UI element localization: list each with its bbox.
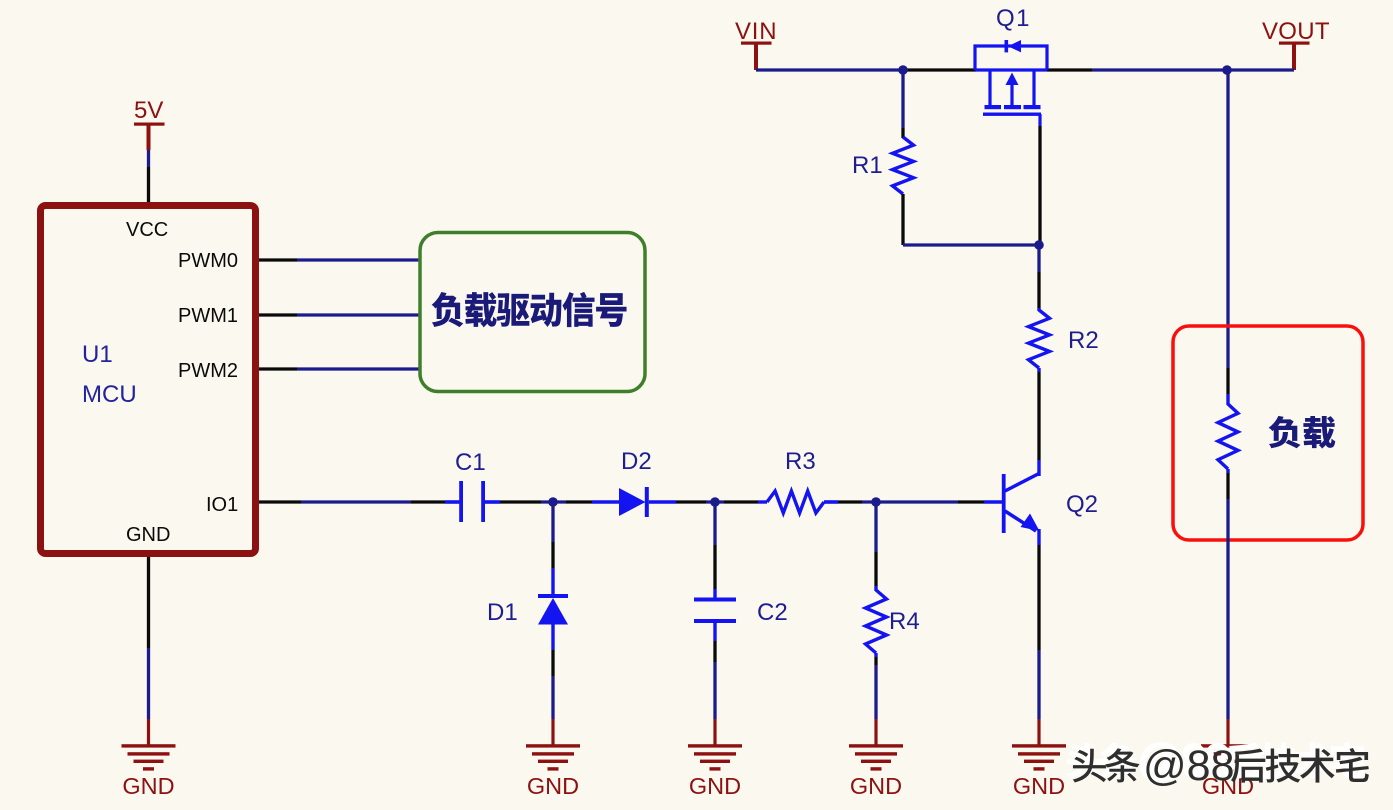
svg-text:R2: R2 bbox=[1068, 327, 1099, 354]
svg-text:Q1: Q1 bbox=[996, 5, 1031, 32]
ground D1 bbox=[526, 719, 580, 799]
svg-text:GND: GND bbox=[1013, 773, 1065, 799]
wire load to ground bbox=[1226, 469, 1229, 719]
power port VIN bbox=[735, 18, 777, 70]
resistor R4 bbox=[866, 590, 887, 653]
wire C1 to D2 bbox=[485, 500, 620, 504]
text 负载 bbox=[1269, 416, 1336, 449]
svg-text:R1: R1 bbox=[852, 152, 883, 179]
resistor R1 bbox=[893, 137, 914, 194]
junction R3/R4 bbox=[871, 497, 881, 507]
svg-text:PWM0: PWM0 bbox=[178, 250, 238, 272]
svg-text:PWM2: PWM2 bbox=[178, 360, 238, 382]
svg-text:VOUT: VOUT bbox=[1262, 18, 1330, 45]
transistor Q2 (NPN) bbox=[1002, 474, 1040, 534]
wire PWM pin y=260 bbox=[259, 258, 419, 261]
power port 5V bbox=[134, 97, 165, 150]
wire node to C2 bbox=[713, 506, 716, 598]
svg-text:5V: 5V bbox=[134, 97, 163, 124]
svg-text:IO1: IO1 bbox=[206, 494, 238, 516]
svg-text:C1: C1 bbox=[455, 449, 486, 476]
svg-text:U1: U1 bbox=[82, 341, 113, 368]
diode D2 bbox=[619, 487, 649, 517]
junction VIN/R1 bbox=[898, 65, 908, 75]
ground U1 bbox=[122, 719, 176, 799]
load resistor symbol bbox=[1218, 404, 1238, 469]
annotation box: load drive signal bbox=[420, 233, 645, 392]
svg-text:R3: R3 bbox=[785, 448, 816, 475]
wire R4 to ground bbox=[874, 653, 877, 719]
wire 5V to VCC pin bbox=[147, 150, 150, 204]
watermark 头条 @88后技术宅 bbox=[1068, 737, 1369, 791]
svg-text:GND: GND bbox=[689, 773, 741, 799]
wire PWM pin y=369 bbox=[259, 367, 419, 370]
wire MCU GND pin to ground bbox=[147, 557, 150, 719]
junction gate/R1/R2 bbox=[1034, 240, 1044, 250]
capacitor C1 bbox=[459, 481, 485, 522]
svg-text:R4: R4 bbox=[889, 608, 920, 635]
wire VIN rail bbox=[756, 68, 976, 71]
ground load bbox=[1201, 719, 1255, 799]
wire D1 to ground bbox=[551, 624, 554, 719]
text 负载驱动信号 bbox=[432, 292, 627, 327]
wire junction to R2 bbox=[1037, 245, 1040, 311]
svg-text:D1: D1 bbox=[487, 599, 518, 626]
svg-text:MCU: MCU bbox=[82, 381, 137, 408]
wire IO1 to C1 bbox=[259, 500, 460, 503]
load annotation box bbox=[1173, 326, 1363, 540]
wire R3 to Q2 base bbox=[824, 500, 1002, 504]
junction C1/D1 bbox=[548, 497, 558, 507]
transistor Q1 (PMOS with body diode) bbox=[975, 40, 1047, 126]
wire C2 to ground bbox=[713, 623, 716, 719]
wire VIN to R1 bbox=[901, 70, 904, 138]
junction D2/C2 bbox=[710, 497, 720, 507]
wire VOUT to load bbox=[1226, 70, 1229, 405]
svg-text:PWM1: PWM1 bbox=[178, 305, 238, 327]
wire Q1 gate down bbox=[1038, 126, 1041, 243]
power port VOUT bbox=[1262, 18, 1330, 70]
wire PWM pin y=315 bbox=[259, 313, 419, 316]
svg-text:Q2: Q2 bbox=[1066, 491, 1098, 518]
ground R4 bbox=[849, 719, 903, 799]
wire node to R4 bbox=[874, 506, 877, 591]
svg-text:VIN: VIN bbox=[735, 18, 777, 45]
capacitor C2 bbox=[694, 598, 736, 624]
resistor R2 bbox=[1029, 310, 1050, 368]
wire D2 to R3 bbox=[649, 500, 767, 503]
diode D1 bbox=[538, 594, 568, 625]
svg-text:GND: GND bbox=[126, 524, 170, 546]
wire R2 to Q2 collector bbox=[1037, 368, 1040, 476]
svg-text:D2: D2 bbox=[621, 448, 652, 475]
wire Q2 emitter to ground bbox=[1037, 529, 1040, 719]
svg-text:C2: C2 bbox=[757, 599, 788, 626]
svg-text:GND: GND bbox=[850, 773, 902, 799]
wire R1 bottom bbox=[903, 194, 1039, 245]
MCU U1 box bbox=[41, 206, 256, 554]
svg-text:GND: GND bbox=[122, 773, 174, 799]
ground C2 bbox=[688, 719, 742, 799]
wire VOUT rail bbox=[1047, 68, 1294, 71]
svg-text:@88: @88 bbox=[1143, 742, 1234, 790]
junction VOUT/load bbox=[1222, 65, 1232, 75]
resistor R3 bbox=[767, 491, 824, 513]
svg-text:VCC: VCC bbox=[126, 219, 168, 241]
ground Q2 bbox=[1012, 719, 1066, 799]
wire node to D1 bbox=[551, 506, 554, 594]
svg-text:GND: GND bbox=[527, 773, 579, 799]
